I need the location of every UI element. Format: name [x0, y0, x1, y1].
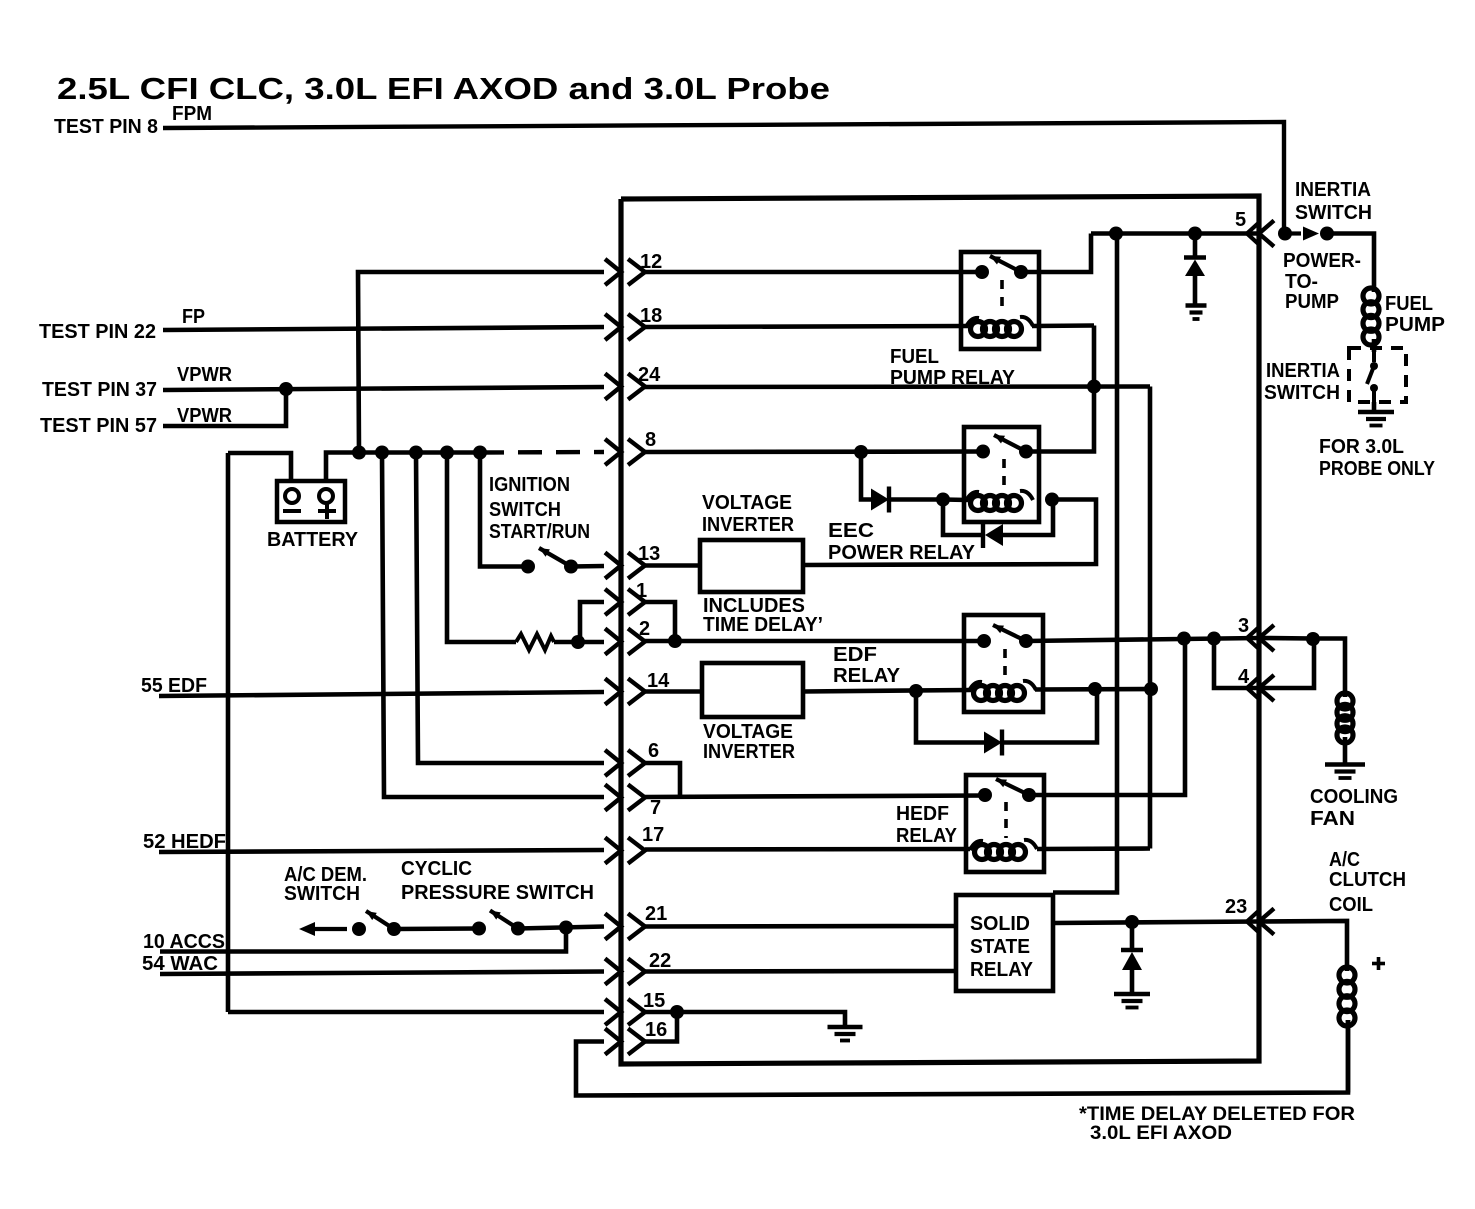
wire pin 16 up to pins 15/16 junction: [645, 1012, 677, 1042]
voltage inverter U2: [702, 663, 803, 717]
wire 55 EDF to EEC pin 14: [159, 692, 604, 696]
battery B1: [277, 481, 345, 522]
node pin 5 feed / SSR drop: [1109, 227, 1123, 241]
wire battery negative to left rail: [228, 453, 291, 483]
cooling fan motor M2 winding: [1337, 693, 1353, 743]
wire battery supply bus: [359, 450, 480, 455]
wire ignition switch to pin 13: [571, 564, 604, 569]
EEC pin 24: [605, 364, 661, 400]
node EEC power relay diode tap: [854, 445, 868, 459]
wire VPWR to EDF/HEDF coils riser: [1148, 387, 1153, 849]
svg-text:21: 21: [645, 903, 667, 925]
svg-text:VPWR: VPWR: [177, 364, 233, 386]
wire FPM: test pin 8 to power-to-pump node: [163, 122, 1284, 234]
wire pin 21 to solid state relay: [645, 924, 956, 929]
EEC pin 15: [605, 990, 665, 1025]
node cooling fan feed junction: [1306, 632, 1320, 646]
svg-text:15: 15: [643, 990, 665, 1012]
wire HEDF contact output to fan line riser: [1029, 639, 1185, 796]
A/C demand switch S2 blade: [366, 911, 394, 929]
svg-text:FP: FP: [182, 306, 205, 328]
EEC pin 5: [1235, 209, 1274, 247]
svg-text:POWER-: POWER-: [1283, 250, 1361, 272]
wire pin 22 to solid state relay: [645, 969, 956, 974]
node EEC power relay coil right: [1045, 493, 1059, 507]
svg-text:18: 18: [640, 305, 662, 327]
wire external jumper pin 1 to pin 2: [580, 602, 604, 642]
svg-text:TEST PIN 37: TEST PIN 37: [42, 379, 157, 401]
EDF clamp diode CR4: [916, 691, 984, 743]
EEC pin 13: [605, 543, 660, 579]
wire pin 17 to HEDF relay coil: [645, 847, 970, 852]
svg-text:EEC: EEC: [828, 520, 874, 542]
wire bus to pin 7 drop: [382, 453, 604, 798]
EEC pin 3: [1238, 615, 1274, 651]
svg-text:4: 4: [1238, 666, 1250, 688]
wire EDF relay contact to pin 3 / fan line: [1026, 638, 1259, 641]
HEDF relay coil: [970, 840, 1037, 860]
wire pin 24 VPWR internal run: [645, 384, 1150, 389]
svg-text:SWITCH: SWITCH: [1264, 382, 1340, 404]
wire pin 4 right loop: [1259, 639, 1314, 688]
svg-text:A/C: A/C: [1329, 849, 1360, 871]
svg-text:IGNITION: IGNITION: [489, 474, 570, 496]
EEC power relay armature dashed link: [1002, 459, 1006, 489]
HEDF relay blade: [996, 779, 1029, 795]
node bus junction D: [440, 446, 454, 460]
svg-text:FPM: FPM: [172, 103, 212, 125]
wire diode CR1 to coil: [889, 497, 943, 502]
node pin 5 feed / clamp diode: [1188, 227, 1202, 241]
svg-text:PROBE ONLY: PROBE ONLY: [1319, 458, 1436, 480]
svg-text:3.0L EFI AXOD: 3.0L EFI AXOD: [1090, 1123, 1232, 1144]
wire fuel pump to inertia switch 2: [1372, 339, 1377, 352]
svg-text:PRESSURE SWITCH: PRESSURE SWITCH: [401, 882, 594, 904]
wire EDF coil output: [1035, 687, 1151, 692]
svg-text:TO-: TO-: [1285, 271, 1318, 293]
wire pin 8 to EEC power relay contact: [645, 449, 983, 454]
svg-text:EDF: EDF: [833, 644, 877, 666]
node EDF coil VPWR junction: [1144, 682, 1158, 696]
svg-text:VOLTAGE: VOLTAGE: [703, 721, 793, 743]
fuel pump relay contacts: [975, 265, 1028, 279]
svg-text:TEST PIN 57: TEST PIN 57: [40, 415, 157, 437]
svg-text:BATTERY: BATTERY: [267, 529, 359, 551]
wire VPWR: test pin 57 branch: [163, 389, 286, 426]
arrow to evaporator (left): [299, 922, 347, 936]
EEC module connector outline: [621, 196, 1259, 1064]
wire fan feed down: [1313, 639, 1345, 698]
EEC pin 17: [605, 824, 664, 864]
svg-text:PUMP: PUMP: [1385, 314, 1445, 336]
node EDF coil clamp junction: [1088, 682, 1102, 696]
svg-text:COOLING: COOLING: [1310, 786, 1398, 808]
node pins 1/2 internal jumper junction: [668, 634, 682, 648]
wire 10 ACCS to junction: [160, 928, 566, 952]
voltage inverter U1: [700, 540, 803, 592]
wire HEDF coil to VPWR riser: [1037, 846, 1150, 851]
wire 54 WAC to EEC pin 22: [160, 972, 604, 975]
inertia switch S5 dashed box: [1349, 348, 1406, 402]
ground G5 (fuel pump): [1358, 412, 1394, 426]
inertia switch S5 element: [1367, 352, 1378, 402]
ground G1 (power-to-pump clamp): [1186, 306, 1207, 320]
wire pin 12 to fuel pump relay contact: [645, 270, 982, 275]
wire inertia switch 2 to ground: [1372, 402, 1377, 412]
svg-text:24: 24: [638, 364, 661, 386]
cyclic pressure switch S3: [472, 922, 525, 936]
wire EDF clamp return: [1002, 689, 1097, 743]
wire pin 2 to EDF relay contact: [645, 639, 984, 644]
svg-text:22: 22: [649, 950, 671, 972]
node bus junction A (battery +): [352, 446, 366, 460]
cyclic pressure switch S3 blade: [490, 911, 518, 929]
wire A/C demand to cyclic pressure switch: [394, 926, 479, 931]
wire solid state relay output to pin 23: [1053, 922, 1259, 924]
EEC power relay K2 box: [964, 427, 1039, 522]
ground G2 (EEC pins 15/16): [828, 1027, 863, 1041]
wire power-to-pump feed to pin 5: [1091, 231, 1259, 236]
EDF relay armature dashed link: [1003, 649, 1007, 677]
svg-text:STATE: STATE: [970, 936, 1030, 958]
svg-text:INERTIA: INERTIA: [1295, 179, 1371, 201]
svg-text:POWER RELAY: POWER RELAY: [828, 542, 976, 564]
wire fuel pump relay contact to pin 5 feed line: [1021, 234, 1091, 273]
node EEC power relay coil left: [936, 493, 950, 507]
svg-text:1: 1: [636, 580, 647, 602]
EEC power relay contacts: [976, 445, 1033, 459]
EDF relay blade: [993, 625, 1026, 641]
svg-text:2.5L CFI CLC, 3.0L EFI AXOD an: 2.5L CFI CLC, 3.0L EFI AXOD and 3.0L Pro…: [57, 71, 830, 106]
fuel pump relay armature dashed link: [1000, 280, 1004, 312]
wire inverter 1 output to EEC power relay coil: [803, 500, 1096, 566]
svg-text:INVERTER: INVERTER: [702, 514, 795, 536]
svg-text:3: 3: [1238, 615, 1249, 637]
node fan line / HEDF riser: [1177, 632, 1191, 646]
svg-text:HEDF: HEDF: [896, 803, 949, 825]
svg-text:13: 13: [638, 543, 660, 565]
wire pins 15/16 junction to ground: [677, 1012, 845, 1027]
ignition switch S1 contacts: [521, 560, 535, 574]
wire bus to pin 6 drop: [416, 453, 604, 764]
node power-to-pump at FPM riser: [1278, 227, 1292, 241]
EEC power relay coil: [966, 491, 1033, 511]
svg-text:PUMP RELAY: PUMP RELAY: [890, 367, 1016, 389]
EEC pin 12: [605, 251, 662, 285]
HEDF relay contacts: [978, 788, 1036, 802]
wire left rail to EEC pin 15: [228, 1010, 604, 1015]
wire pin 13 to voltage inverter 1: [645, 563, 700, 568]
wire SSR feed drop: [1053, 234, 1117, 893]
polarity + mark: [1372, 957, 1385, 970]
svg-text:14: 14: [647, 670, 670, 692]
wire bus to ignition switch: [480, 453, 528, 567]
wire fuel pump relay coil to VPWR riser: [1032, 323, 1094, 328]
svg-text:SWITCH: SWITCH: [1295, 202, 1372, 224]
svg-text:FUEL: FUEL: [1385, 293, 1433, 315]
svg-text:VOLTAGE: VOLTAGE: [702, 492, 792, 514]
EEC pin 14: [605, 670, 670, 705]
svg-text:SWITCH: SWITCH: [284, 883, 360, 905]
EEC pin 7: [605, 785, 661, 820]
EEC pin 16: [605, 1019, 667, 1055]
wire A/C clutch coil return (bottom loop): [1346, 1020, 1351, 1093]
wire resistor to pin 2: [554, 640, 604, 645]
EEC pin 21: [605, 903, 667, 940]
resistor R1 (pins 1/2 feed): [516, 634, 554, 650]
wire inverter 2 output to EDF coil: [803, 690, 971, 692]
EEC pin 4: [1238, 666, 1274, 701]
EEC pin 23: [1225, 896, 1274, 935]
wire pin 23 to A/C clutch coil: [1259, 921, 1347, 971]
solid state relay K5 box: [956, 895, 1053, 991]
node pins 15/16 junction: [670, 1005, 684, 1019]
EEC pin 18: [605, 305, 662, 340]
svg-text:23: 23: [1225, 896, 1247, 918]
svg-text:START/RUN: START/RUN: [489, 521, 590, 543]
svg-text:COIL: COIL: [1329, 894, 1373, 916]
svg-text:CYCLIC: CYCLIC: [401, 858, 472, 880]
EEC pin 2: [605, 618, 650, 655]
wire cyclic pressure switch to pin 21 node: [518, 927, 604, 929]
wire pin 1 internal jumper stub: [645, 602, 675, 641]
svg-text:RELAY: RELAY: [896, 825, 958, 847]
fuel pump relay coil: [966, 317, 1033, 337]
svg-text:RELAY: RELAY: [833, 665, 901, 687]
svg-text:6: 6: [648, 740, 659, 762]
wire pin 18 to fuel pump relay coil: [645, 326, 968, 327]
node pin 23 clamp diode junction: [1125, 915, 1139, 929]
EEC pin 1: [605, 580, 647, 615]
wire bus to pin 12 riser: [358, 272, 604, 453]
EDF relay contacts: [977, 634, 1033, 648]
svg-text:FUEL: FUEL: [890, 346, 939, 368]
wire battery positive to supply bus: [326, 453, 359, 484]
node bus junction E (ignition feed): [473, 446, 487, 460]
wire VPWR: test pin 37 to EEC pin 24: [163, 387, 604, 390]
svg-text:RELAY: RELAY: [970, 959, 1034, 981]
wire EEC pin 16 to bottom return loop: [576, 1020, 1348, 1096]
wire pin 6 internal jumper stub: [645, 763, 680, 797]
svg-text:FOR 3.0L: FOR 3.0L: [1319, 436, 1404, 458]
svg-text:8: 8: [645, 429, 656, 451]
node VPWR junction test pin 37/57: [279, 382, 293, 396]
EEC power relay blade: [994, 435, 1026, 452]
svg-text:CLUTCH: CLUTCH: [1329, 869, 1406, 891]
svg-text:INERTIA: INERTIA: [1266, 360, 1340, 382]
node inertia switch right: [1320, 227, 1334, 241]
A/C clutch coil L1 winding: [1339, 967, 1355, 1026]
svg-text:*TIME DELAY DELETED FOR: *TIME DELAY DELETED FOR: [1079, 1104, 1355, 1125]
wire cooling fan to ground: [1343, 737, 1348, 765]
svg-text:17: 17: [642, 824, 664, 846]
wire pin 7 to HEDF relay contact: [645, 796, 985, 798]
node EDF coil input / clamp tap: [909, 684, 923, 698]
fuel pump relay K1 box: [961, 252, 1039, 349]
wire EEC power relay contact to VPWR riser: [1026, 326, 1094, 452]
wire pin 14 to voltage inverter 2: [645, 689, 702, 694]
EEC pin 22: [605, 950, 671, 985]
svg-text:TEST PIN 22: TEST PIN 22: [39, 321, 156, 343]
node VPWR junction at fuel pump relay coil riser: [1087, 380, 1101, 394]
inertia switch S4 (in line): [1285, 227, 1319, 241]
wire inertia switch to fuel pump: [1327, 234, 1374, 293]
EEC pin 6: [605, 740, 659, 776]
ground G6 (cooling fan): [1325, 765, 1365, 779]
svg-text:SWITCH: SWITCH: [489, 499, 561, 521]
svg-text:PUMP: PUMP: [1285, 291, 1339, 313]
svg-text:2: 2: [639, 618, 650, 640]
svg-text:7: 7: [650, 797, 661, 819]
HEDF relay armature dashed link: [1004, 802, 1008, 838]
wire left ground rail (battery negative down left side): [226, 453, 231, 1012]
HEDF relay K4 box: [966, 775, 1044, 872]
wire bus to resistor drop: [447, 453, 516, 643]
wire pin 15 to ground junction: [645, 1010, 677, 1015]
wire FP: test pin 22 to EEC pin 18: [163, 327, 604, 330]
EDF relay K3 box: [964, 615, 1043, 712]
fuel pump motor M1 winding: [1363, 288, 1379, 345]
svg-text:FAN: FAN: [1310, 808, 1355, 830]
wire supply bus dashed segment into pin 8: [480, 450, 604, 455]
diode CR3 to ground (power-to-pump): [1193, 234, 1198, 258]
EEC power relay clamp diode CR2: [943, 500, 983, 536]
svg-text:SOLID: SOLID: [970, 913, 1030, 935]
node resistor output junction: [571, 635, 585, 649]
svg-text:16: 16: [645, 1019, 667, 1041]
diode CR5 to ground (A/C clutch clamp): [1130, 922, 1135, 950]
node bus junction B: [375, 446, 389, 460]
wire 52 HEDF to EEC pin 17: [159, 850, 604, 852]
svg-text:TEST PIN 8: TEST PIN 8: [54, 116, 158, 138]
node ACCS junction: [559, 921, 573, 935]
wire pin 3 to cooling fan: [1259, 636, 1313, 641]
node fan line / pin 4 jumper: [1207, 632, 1221, 646]
diode CR1 feed from pin 8 line: [861, 452, 871, 500]
ignition switch S1 blade: [539, 548, 571, 567]
wire EEC power relay coil left lead: [943, 497, 968, 502]
ground G3 (A/C clutch clamp): [1114, 994, 1150, 1008]
node bus junction C: [409, 446, 423, 460]
wire clamp diode CR2 return: [1003, 500, 1053, 536]
wire pin 4 left jumper: [1214, 639, 1259, 689]
EDF relay coil: [969, 681, 1036, 701]
A/C demand switch S2: [352, 922, 401, 936]
EEC pin 8: [605, 429, 656, 465]
fuel pump relay blade: [990, 256, 1021, 272]
svg-text:INVERTER: INVERTER: [703, 741, 796, 763]
svg-text:TIME DELAY’: TIME DELAY’: [703, 614, 823, 636]
svg-text:5: 5: [1235, 209, 1246, 231]
